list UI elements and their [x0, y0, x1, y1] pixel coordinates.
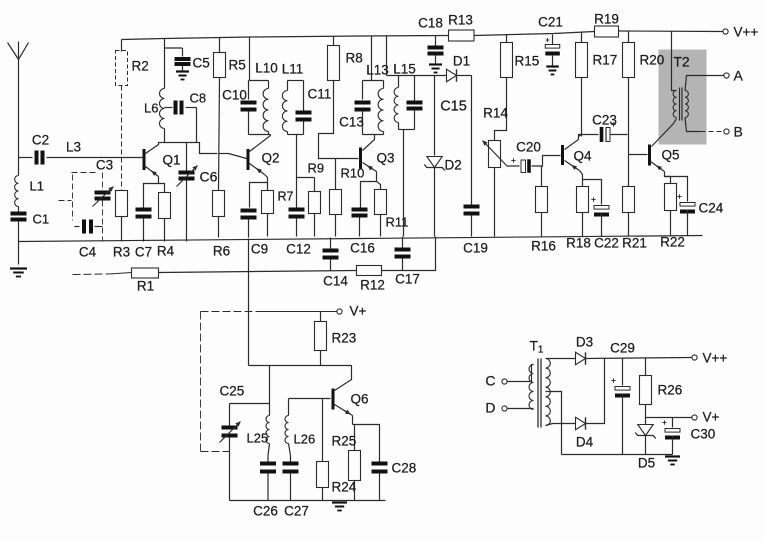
svg-text:C30: C30 [691, 427, 716, 442]
svg-text:C23: C23 [592, 113, 617, 128]
svg-text:C15: C15 [440, 99, 467, 115]
svg-text:L26: L26 [294, 432, 316, 447]
svg-text:C6: C6 [200, 169, 218, 185]
svg-text:C29: C29 [610, 341, 635, 356]
svg-text:C19: C19 [463, 241, 488, 256]
svg-text:B: B [734, 124, 743, 140]
svg-text:C7: C7 [135, 245, 152, 260]
svg-text:R14: R14 [483, 106, 508, 121]
svg-text:C16: C16 [350, 241, 375, 256]
svg-text:Q6: Q6 [351, 392, 369, 407]
svg-text:R26: R26 [658, 383, 683, 398]
svg-text:R22: R22 [660, 235, 685, 250]
svg-text:C24: C24 [699, 201, 724, 216]
svg-text:C8: C8 [190, 91, 207, 106]
svg-text:Q1: Q1 [163, 153, 181, 168]
svg-text:C25: C25 [220, 384, 245, 399]
svg-text:C2: C2 [32, 133, 49, 148]
svg-text:R18: R18 [566, 236, 591, 251]
svg-text:R8: R8 [346, 51, 363, 66]
svg-text:C27: C27 [284, 504, 309, 519]
svg-text:Q3: Q3 [377, 151, 395, 166]
svg-text:L15: L15 [393, 62, 416, 77]
svg-text:C21: C21 [538, 15, 563, 30]
svg-text:C26: C26 [253, 504, 278, 519]
svg-text:R21: R21 [622, 236, 647, 251]
svg-text:R17: R17 [593, 53, 618, 68]
svg-text:D4: D4 [576, 435, 594, 450]
svg-text:C3: C3 [96, 158, 113, 173]
svg-text:R3: R3 [113, 245, 130, 260]
svg-text:C11: C11 [308, 87, 332, 102]
svg-text:C4: C4 [79, 245, 97, 260]
svg-text:V+: V+ [703, 410, 720, 425]
svg-text:C20: C20 [516, 140, 541, 155]
svg-text:R23: R23 [332, 331, 357, 346]
svg-text:Q4: Q4 [574, 149, 593, 164]
svg-text:L10: L10 [255, 61, 278, 76]
svg-text:C1: C1 [33, 212, 50, 227]
svg-text:R2: R2 [132, 59, 149, 74]
svg-text:C10: C10 [222, 88, 247, 103]
svg-text:R4: R4 [157, 244, 175, 259]
svg-text:R5: R5 [229, 58, 246, 73]
svg-text:C: C [485, 373, 495, 389]
svg-text:R6: R6 [213, 244, 230, 259]
svg-text:A: A [734, 68, 744, 84]
svg-text:C22: C22 [594, 236, 619, 251]
svg-text:L1: L1 [30, 179, 44, 194]
svg-text:C13: C13 [339, 115, 364, 130]
svg-text:Q2: Q2 [262, 151, 280, 166]
svg-text:C17: C17 [395, 272, 420, 287]
svg-text:D3: D3 [576, 335, 593, 350]
svg-text:R11: R11 [386, 215, 409, 230]
svg-text:L6: L6 [144, 101, 158, 116]
svg-text:R9: R9 [308, 161, 325, 176]
svg-text:R1: R1 [137, 279, 154, 294]
svg-text:R19: R19 [594, 12, 619, 27]
svg-text:R16: R16 [531, 239, 556, 254]
svg-text:C18: C18 [418, 16, 443, 31]
svg-text:D5: D5 [638, 456, 655, 471]
svg-text:L3: L3 [66, 140, 81, 155]
svg-text:R13: R13 [448, 13, 473, 28]
svg-text:D1: D1 [453, 54, 470, 69]
svg-text:C28: C28 [392, 461, 417, 476]
svg-text:C12: C12 [286, 242, 311, 257]
svg-text:Q5: Q5 [662, 148, 680, 163]
svg-text:D2: D2 [445, 158, 462, 173]
svg-text:R15: R15 [515, 54, 540, 69]
svg-text:L11: L11 [282, 62, 304, 77]
svg-text:R12: R12 [360, 278, 385, 293]
svg-text:T2: T2 [673, 54, 690, 70]
svg-text:R24: R24 [332, 480, 357, 495]
svg-text:D: D [485, 400, 495, 416]
svg-text:L25: L25 [247, 431, 269, 446]
svg-text:V++: V++ [734, 25, 759, 40]
svg-text:C14: C14 [323, 274, 348, 289]
svg-text:L13: L13 [366, 63, 389, 78]
svg-text:C5: C5 [193, 56, 210, 71]
svg-text:R7: R7 [278, 190, 294, 204]
svg-text:R25: R25 [332, 434, 357, 449]
svg-text:V++: V++ [703, 351, 728, 366]
svg-text:V+: V+ [350, 304, 367, 319]
svg-text:R20: R20 [640, 53, 665, 68]
svg-text:C9: C9 [251, 242, 268, 257]
